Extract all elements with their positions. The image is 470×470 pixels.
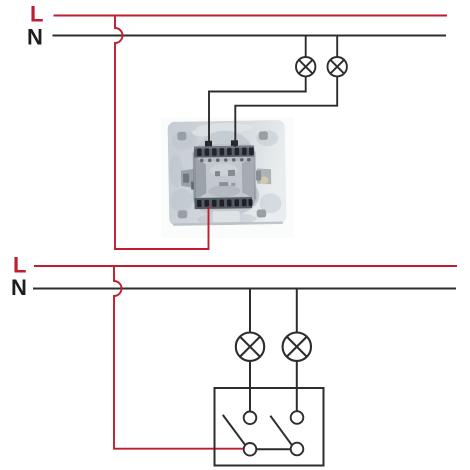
lamp L1 (top)	[296, 57, 315, 76]
wire lamp L1 to switch top terminal 1	[209, 76, 306, 146]
photo backdrop	[161, 117, 294, 238]
mechanism body	[193, 144, 256, 210]
plate slot top-right	[259, 131, 268, 140]
bottom terminal strip	[194, 197, 252, 209]
svg-text:L: L	[13, 253, 26, 278]
L line (bottom)	[34, 265, 457, 267]
second screw row	[200, 158, 251, 162]
plate central dome	[195, 130, 254, 160]
svg-text:N: N	[27, 25, 43, 50]
L line (top)	[54, 15, 448, 17]
bottom label recess	[213, 211, 240, 222]
wire N to lamp L1 (top)	[305, 36, 307, 58]
bottom terminal screws	[197, 199, 253, 207]
mech side frame edges	[193, 153, 196, 201]
switch mechanism photo	[161, 117, 294, 238]
N line (top)	[53, 35, 447, 37]
plate slot bottom-left	[178, 210, 188, 218]
wire lamp L3 to terminal T1	[249, 361, 251, 412]
lamp L3	[236, 333, 264, 361]
wire lamp L4 to terminal T2	[296, 361, 298, 411]
terminal T2	[291, 411, 304, 424]
switch lever 1	[223, 415, 246, 445]
plate slot bottom-right	[257, 209, 267, 217]
lamp L2 (top)	[328, 57, 347, 76]
terminal T1	[244, 412, 257, 425]
wire entry nubs	[205, 141, 212, 148]
red L feed wire with hop over N (bottom)	[114, 266, 244, 449]
top terminal strip	[194, 146, 254, 158]
terminal B2	[291, 443, 304, 456]
mounting plate	[168, 120, 287, 226]
plate mottling	[168, 130, 282, 226]
left fixing claw	[181, 169, 196, 189]
wire N to lamp L4	[296, 289, 298, 333]
right fixing claw	[257, 168, 271, 184]
terminal B1 (common)	[244, 443, 257, 456]
lamp L4	[283, 333, 311, 361]
svg-text:L: L	[30, 2, 43, 27]
imprint marks center	[215, 171, 220, 176]
wire N to lamp L3	[249, 289, 251, 333]
wire lamp L2 to switch top terminal 2	[235, 76, 337, 147]
red L feed wire with hop over N (top)	[115, 16, 209, 250]
plate bottom shadow	[173, 222, 283, 226]
plate slot top-left	[177, 132, 186, 141]
N line (bottom)	[33, 288, 456, 290]
switch box	[215, 388, 324, 466]
svg-text:N: N	[11, 275, 27, 300]
wire N to lamp L2 (top)	[336, 36, 338, 58]
body shading patches	[201, 161, 249, 198]
wire link B1 to B2	[256, 448, 290, 450]
switch lever 2	[270, 416, 292, 446]
top terminal screws	[197, 148, 254, 156]
